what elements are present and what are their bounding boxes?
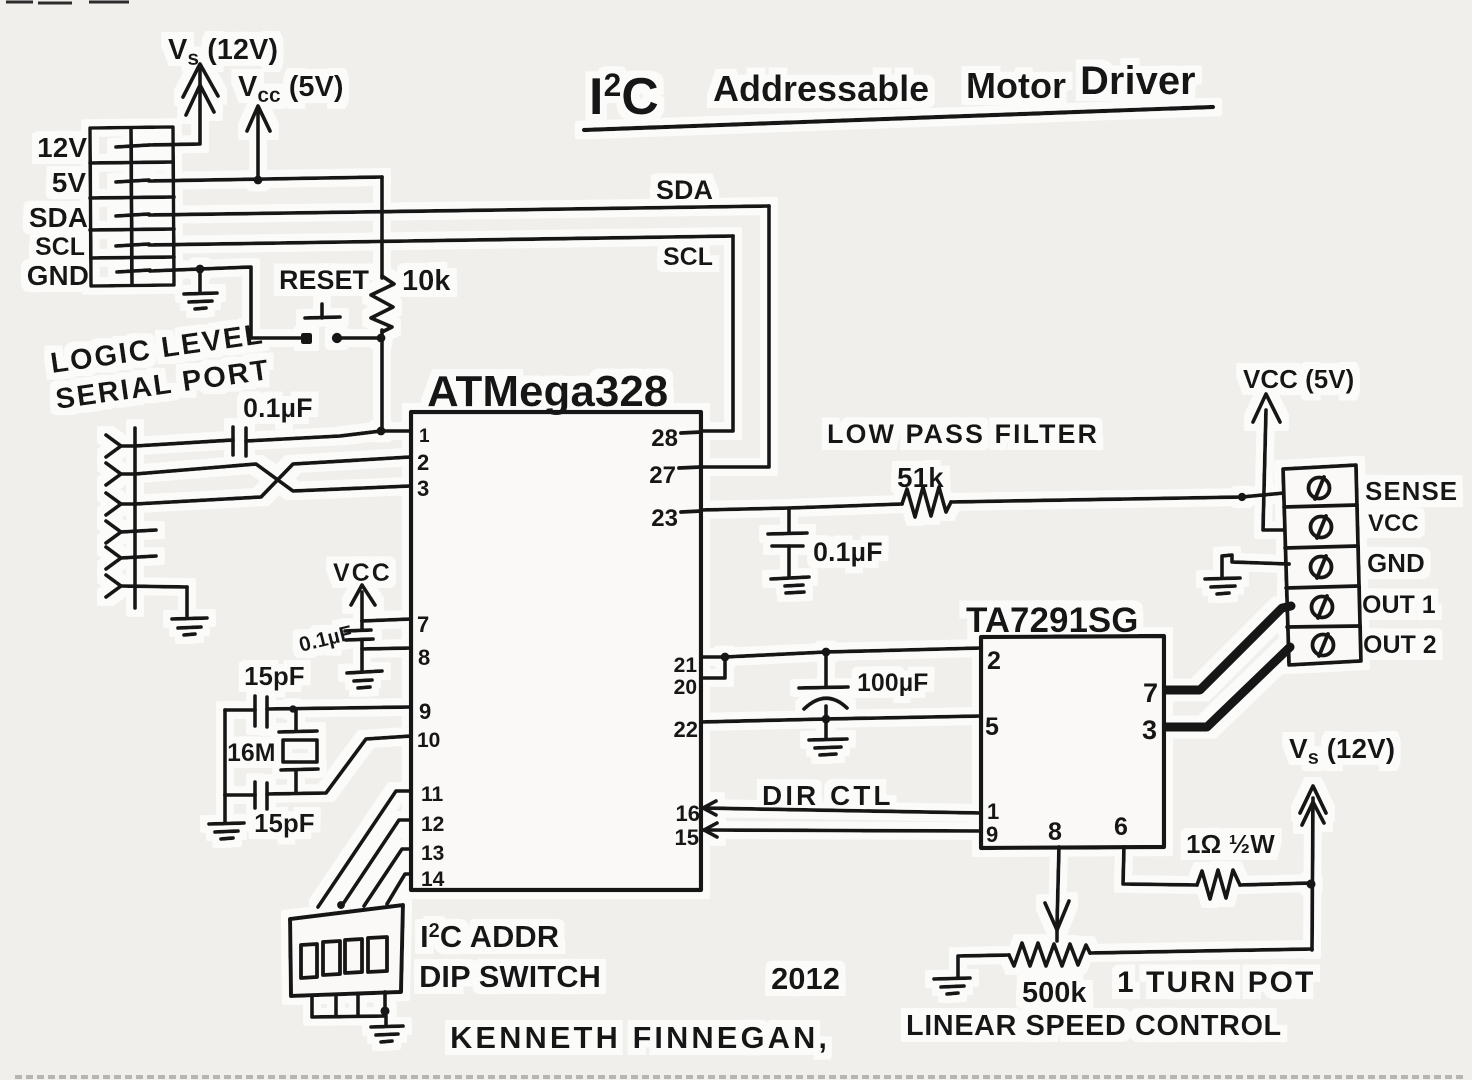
pin 28 inner dash — [681, 432, 701, 433]
serial pin 5 — [106, 547, 121, 569]
arrowhead pin15 — [704, 823, 717, 837]
capacitor C3 15pF top — [253, 696, 257, 726]
wire pin23 to filter — [701, 504, 902, 510]
ground symbol serial port — [172, 618, 207, 619]
pin 27 inner dash — [679, 467, 701, 468]
wire serial pin3 to chip pin2 (crossover) — [135, 457, 410, 504]
J2 screw VCC — [1311, 517, 1332, 538]
svg-text:OUT 1: OUT 1 — [1362, 591, 1436, 619]
wire pin12 to DIP — [341, 820, 411, 907]
title underline — [584, 107, 1213, 130]
svg-text:15pF: 15pF — [244, 661, 305, 691]
serial port header bus — [133, 428, 137, 608]
arrowhead pin16 — [703, 801, 716, 815]
junction node pin1 — [377, 427, 386, 436]
junction 100uF tap — [822, 648, 831, 657]
wire pin11 to DIP — [318, 791, 411, 907]
VCC arrow (decoupling) — [360, 592, 364, 621]
wire pin7 to VCC node — [362, 619, 411, 621]
potentiometer R4 500k body — [1009, 943, 1090, 966]
J2 screw SENSE — [1309, 478, 1330, 499]
svg-text:Motor: Motor — [966, 65, 1066, 106]
svg-text:VCC: VCC — [333, 559, 392, 587]
ground symbol terminal — [1205, 578, 1240, 579]
wire U2 pin6 to 1ohm — [1123, 847, 1197, 885]
svg-text:10: 10 — [417, 729, 440, 752]
title: I2C Addressable Motor Driver — [589, 59, 1196, 126]
left rail — [223, 710, 227, 795]
capacitor C6 100uF — [824, 652, 828, 686]
svg-text:9: 9 — [986, 822, 998, 847]
serial pin 1 — [106, 435, 121, 457]
wire serial pin6 to ground — [185, 587, 189, 616]
svg-text:16: 16 — [676, 801, 700, 826]
svg-text:Vs (12V): Vs (12V) — [1289, 733, 1395, 769]
svg-text:KENNETH FINNEGAN,: KENNETH FINNEGAN, — [450, 1020, 830, 1055]
svg-text:SCL: SCL — [35, 233, 85, 261]
capacitor C5 0.1uF filter — [787, 508, 791, 532]
wire pin20 jog — [701, 657, 725, 678]
DIP toggle 1 — [301, 944, 317, 978]
pushbutton RESET plunger — [305, 317, 340, 318]
wire pin14 to DIP — [387, 874, 411, 904]
driver U2 TA7291SG body — [981, 636, 1164, 848]
capacitor C1 0.1uF (serial) — [231, 427, 235, 455]
J2 screw OUT1 — [1312, 597, 1333, 618]
serial pin 3 — [106, 493, 121, 515]
svg-text:5V: 5V — [52, 167, 87, 198]
svg-text:8: 8 — [418, 645, 430, 670]
connector J1 5-pin header outline — [90, 127, 174, 286]
svg-text:VCC: VCC — [1368, 510, 1419, 537]
wire U2 pin8 to pot wiper — [1057, 847, 1059, 925]
svg-text:12: 12 — [421, 813, 444, 836]
wire pin9 to crystal — [267, 707, 411, 709]
scan artifact top-left marks — [6, 2, 129, 3]
Vcc arrow — [256, 112, 260, 180]
svg-text:15pF: 15pF — [254, 808, 315, 838]
wire bottom cap to pin10 — [267, 736, 411, 794]
ground symbol filter cap — [771, 577, 809, 579]
U2 pin numbers — [985, 647, 1158, 847]
svg-text:28: 28 — [651, 425, 678, 452]
svg-text:GND: GND — [1367, 548, 1425, 578]
pin 23 inner dash — [681, 511, 701, 512]
resistor R2 51k — [902, 487, 951, 517]
svg-text:2: 2 — [987, 647, 1001, 675]
ground symbol crystal — [209, 823, 244, 824]
wire pin21 stub — [701, 655, 725, 659]
junction sense blob — [1238, 493, 1246, 501]
wire 10k to pin1 node — [380, 330, 384, 431]
wire top cap to left rail — [225, 708, 255, 712]
wire left rail to ground — [223, 795, 227, 822]
capacitor C2 0.1uF plates — [360, 621, 364, 630]
ground symbol under J1 — [198, 269, 202, 291]
junction reset/10k — [377, 334, 386, 343]
scanner edge speckle bottom — [15, 1075, 1465, 1079]
svg-text:LOW PASS FILTER: LOW PASS FILTER — [827, 419, 1099, 449]
svg-text:ATMega328: ATMega328 — [427, 367, 668, 416]
thick wire OUT1 from pin7 — [1164, 606, 1291, 690]
svg-text:1: 1 — [419, 426, 430, 447]
wire serial pin1 to cap — [135, 440, 233, 446]
crystal Y1 16M — [294, 709, 298, 731]
svg-text:SDA: SDA — [656, 175, 713, 205]
svg-text:23: 23 — [651, 505, 678, 532]
svg-text:SDA: SDA — [29, 202, 88, 233]
DIP toggle 4 — [368, 937, 387, 972]
svg-text:I2C: I2C — [589, 67, 659, 126]
svg-text:DIR CTL: DIR CTL — [762, 780, 893, 811]
resistor R1 10k — [371, 276, 394, 332]
svg-text:100µF: 100µF — [857, 669, 928, 697]
Vs power arrow (double chevron) — [183, 64, 218, 97]
svg-text:51k: 51k — [897, 462, 944, 493]
Vs arrow right — [1312, 798, 1313, 950]
svg-text:TA7291SG: TA7291SG — [966, 601, 1139, 640]
svg-text:10k: 10k — [402, 265, 451, 297]
thick wire OUT2 from pin3 — [1164, 647, 1290, 727]
wire pot left to ground — [958, 955, 1009, 977]
junction pins 20/21 — [721, 653, 730, 662]
MCU U1 ATMega328 body — [411, 412, 701, 890]
svg-text:5: 5 — [985, 713, 999, 741]
wire 12V to Vs arrow — [149, 68, 200, 145]
wire GND row to reset branch — [150, 267, 306, 338]
svg-text:RESET: RESET — [279, 265, 370, 295]
svg-text:2012: 2012 — [771, 961, 840, 996]
svg-text:Vcc (5V): Vcc (5V) — [238, 71, 344, 107]
J2 screw OUT2 — [1313, 635, 1334, 656]
wire SDA long run — [149, 206, 769, 215]
J2 screw GND — [1311, 557, 1332, 578]
svg-text:2: 2 — [417, 450, 429, 475]
wire GND terminal — [1222, 555, 1289, 577]
svg-text:SCL: SCL — [663, 243, 713, 271]
J1 pin ticks — [116, 145, 149, 147]
capacitor C4 15pF bottom — [253, 782, 257, 808]
ground symbol DIP — [371, 1026, 403, 1027]
svg-text:1Ω ½W: 1Ω ½W — [1186, 829, 1275, 859]
svg-text:27: 27 — [649, 462, 676, 489]
wire pin16 to U2 pin1 — [701, 808, 981, 813]
wire filter to SENSE — [951, 493, 1284, 502]
wire pin22 to U2 pin5 — [701, 716, 981, 722]
svg-text:OUT 2: OUT 2 — [1363, 631, 1437, 659]
terminal block J2 outline — [1283, 465, 1361, 665]
wire pin8 to cap/ground — [362, 648, 411, 649]
DIP toggle 2 — [323, 941, 340, 975]
svg-text:20: 20 — [674, 676, 697, 699]
svg-text:12V: 12V — [37, 132, 87, 163]
junction crystal top — [289, 705, 297, 713]
wire pin15 to U2 pin9 — [701, 830, 981, 831]
VCC arrow right — [1253, 394, 1280, 422]
DIP pins bracket — [312, 992, 385, 1017]
svg-text:GND: GND — [27, 260, 89, 291]
wire pin13 to DIP — [364, 849, 411, 906]
wire pwm net to U2 pin2 — [725, 648, 981, 657]
svg-text:13: 13 — [421, 842, 444, 865]
resistor R3 1 ohm — [1197, 870, 1240, 899]
U1 right pin numbers — [649, 425, 700, 850]
wire SDA vertical to pin 27 — [702, 206, 769, 467]
wire pot right to Vs node — [1090, 949, 1312, 953]
junction DIP wire — [337, 901, 345, 909]
svg-text:3: 3 — [417, 476, 429, 501]
svg-text:Addressable: Addressable — [713, 68, 929, 109]
wire SCL vertical to pin 28 — [702, 236, 733, 431]
serial pin 2 — [106, 463, 121, 485]
ground symbol 100uF — [809, 739, 847, 740]
serial pin 4 — [106, 521, 121, 543]
svg-text:6: 6 — [1114, 813, 1128, 841]
svg-text:SENSE: SENSE — [1365, 476, 1458, 506]
pot wiper arrowhead — [1045, 901, 1069, 930]
J1 row dividers — [90, 162, 173, 163]
svg-text:VCC (5V): VCC (5V) — [1243, 364, 1354, 394]
serial pin 6 — [106, 575, 121, 597]
J1 pin labels 12V 5V SDA SCL GND — [27, 132, 89, 291]
ground symbol pot — [934, 978, 970, 979]
svg-text:7: 7 — [1143, 678, 1158, 708]
svg-text:11: 11 — [421, 783, 444, 806]
wire 5V corner down to resistor — [380, 177, 384, 278]
wire 1ohm to Vs node — [1240, 883, 1311, 885]
U1 left pin numbers — [417, 426, 445, 891]
svg-text:7: 7 — [417, 612, 429, 637]
wire bottom cap to left rail — [225, 793, 255, 797]
J1 middle column line — [131, 128, 132, 285]
svg-text:Driver: Driver — [1080, 59, 1196, 103]
svg-text:15: 15 — [675, 825, 699, 850]
ground symbol decoupling — [347, 671, 382, 673]
junction GND ground tap — [196, 265, 205, 274]
junction cap to pin22 net — [822, 715, 831, 724]
svg-text:14: 14 — [421, 868, 445, 891]
junction Vcc tap — [254, 176, 263, 185]
svg-text:3: 3 — [1142, 715, 1157, 745]
svg-text:Vs (12V): Vs (12V) — [168, 34, 278, 70]
svg-text:500k: 500k — [1022, 977, 1087, 1009]
wire serial pin2 to chip pin3 (crossover) — [135, 464, 410, 491]
wire DIP to ground — [384, 1016, 388, 1025]
svg-text:0.1µF: 0.1µF — [243, 393, 313, 423]
svg-text:I2C ADDR: I2C ADDR — [420, 919, 559, 954]
J2 labels — [1362, 476, 1458, 659]
junction Vs node — [1306, 879, 1315, 888]
DIP toggle 3 — [345, 939, 362, 973]
svg-text:1 TURN POT: 1 TURN POT — [1117, 966, 1315, 999]
pushbutton RESET contacts — [301, 333, 312, 344]
wire SCL long run — [149, 236, 733, 245]
wire 5V row to corner — [149, 177, 382, 181]
svg-text:16M: 16M — [227, 739, 276, 767]
svg-text:LINEAR SPEED CONTROL: LINEAR SPEED CONTROL — [906, 1010, 1282, 1042]
svg-text:DIP SWITCH: DIP SWITCH — [419, 959, 601, 994]
DIP switch S1 body — [290, 905, 403, 996]
wire cap to pin1 node — [246, 431, 410, 441]
J2 row dividers — [1284, 505, 1357, 507]
svg-text:22: 22 — [674, 717, 698, 742]
wire reset to 10k net — [337, 336, 381, 340]
junction DIP ground — [380, 1006, 389, 1015]
svg-text:8: 8 — [1048, 818, 1062, 846]
svg-text:9: 9 — [419, 699, 431, 724]
svg-text:1: 1 — [987, 799, 999, 824]
svg-text:0.1µF: 0.1µF — [813, 537, 883, 567]
svg-text:21: 21 — [674, 654, 698, 677]
wire cap ground — [824, 719, 828, 738]
